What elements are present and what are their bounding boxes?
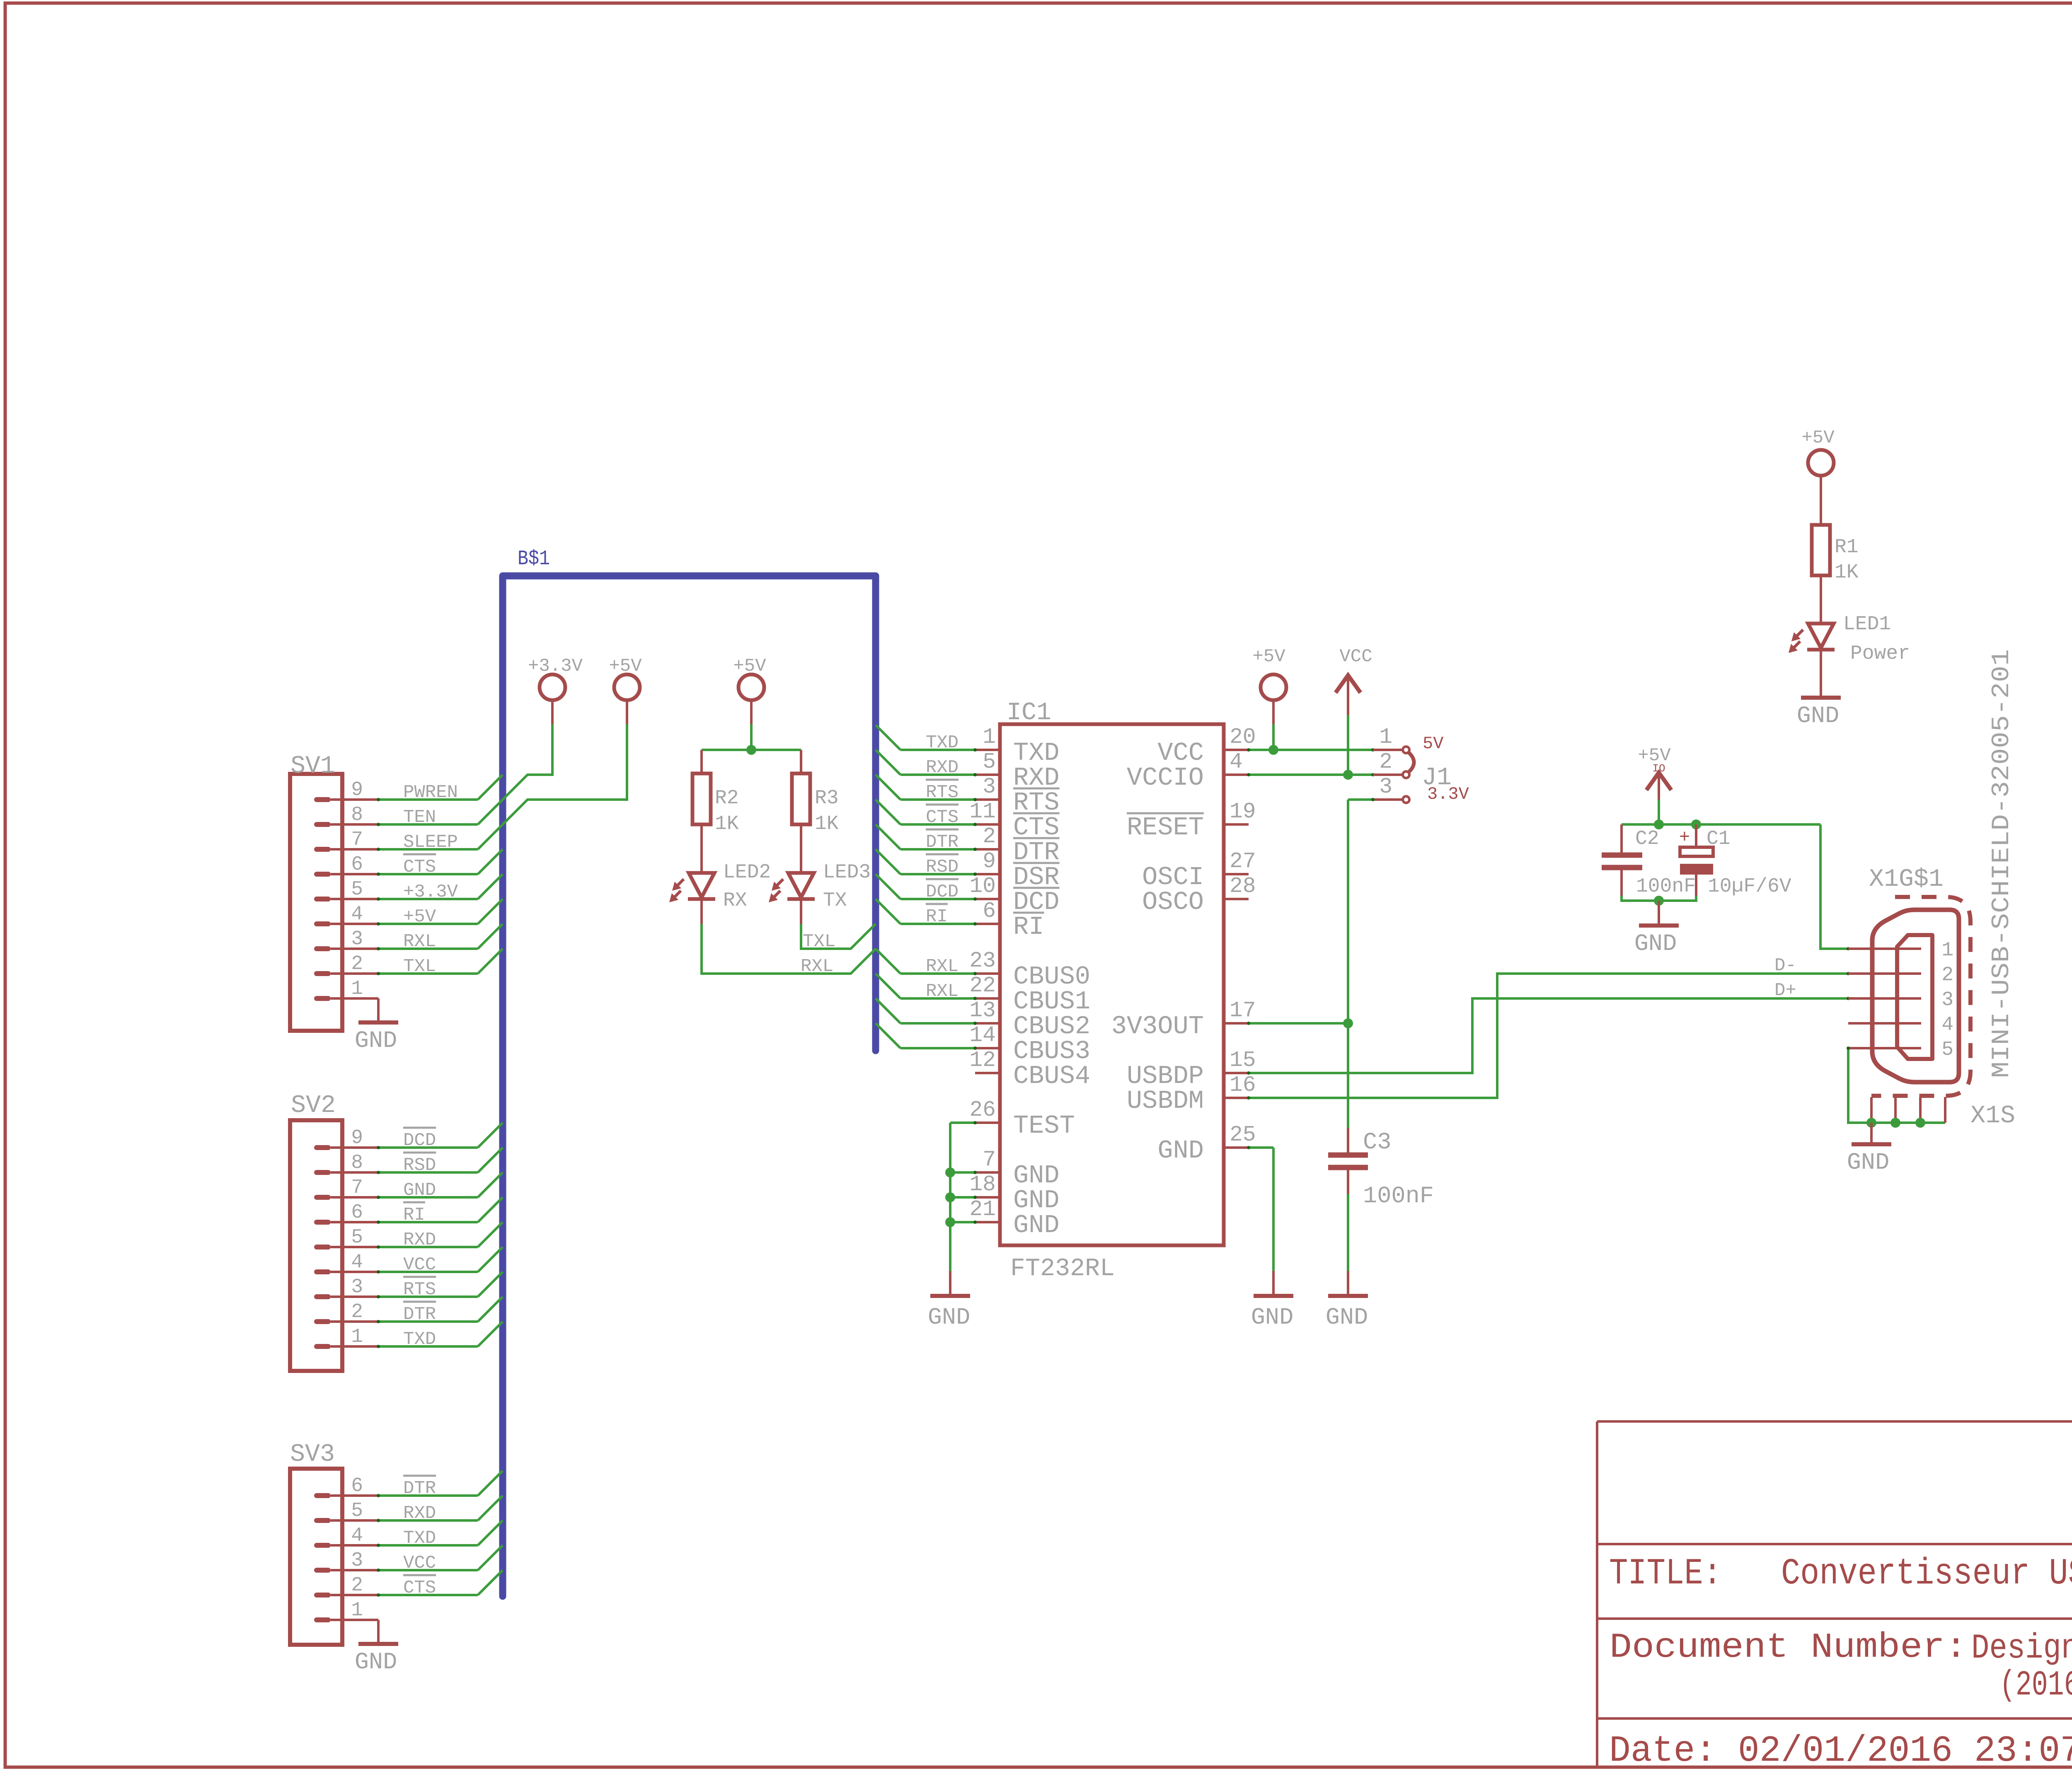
wire USBDM (D-) to USB pin 2 bbox=[1247, 972, 1850, 1100]
svg-text:2: 2 bbox=[983, 824, 996, 849]
IC1 pin 22 (CBUS1) left bbox=[969, 973, 1000, 998]
IC1 pin 26 (TEST) left bbox=[969, 1097, 1000, 1123]
junction at GND pin 7 bbox=[945, 1167, 955, 1177]
svg-text:3.3V: 3.3V bbox=[1427, 784, 1469, 804]
wire X1 pin 5 to shield ground row bbox=[1847, 1047, 1945, 1123]
IC1 pin 18 (GND) left bbox=[969, 1172, 1000, 1197]
svg-text:RSD: RSD bbox=[403, 1155, 436, 1176]
net label DTR bbox=[403, 1302, 436, 1325]
svg-text:2: 2 bbox=[351, 1301, 363, 1323]
ground symbol GND (SV1 pin 1) bbox=[355, 1022, 398, 1054]
svg-text:5: 5 bbox=[983, 749, 996, 774]
svg-text:GND: GND bbox=[1251, 1305, 1294, 1331]
svg-text:3V3OUT: 3V3OUT bbox=[1111, 1012, 1204, 1041]
wire TEN from SV1 pin 8 to bus bbox=[377, 800, 503, 826]
wire RXL from bus to IC1 pin 23 bbox=[876, 949, 977, 975]
svg-text:1: 1 bbox=[983, 725, 996, 749]
net label RSD bbox=[403, 1153, 436, 1176]
svg-text:23: 23 bbox=[969, 948, 996, 973]
net label RI bbox=[403, 1202, 425, 1225]
svg-text:3: 3 bbox=[983, 774, 996, 799]
SV1 pin 3 pin line bbox=[331, 947, 378, 950]
svg-text:+5V: +5V bbox=[733, 656, 766, 677]
svg-text:27: 27 bbox=[1230, 849, 1256, 874]
net label SLEEP bbox=[403, 832, 458, 853]
IC U1 FT232RL body bbox=[1000, 724, 1224, 1245]
wire DCD from SV2 pin 9 to bus bbox=[377, 1123, 503, 1149]
connector SV3 bbox=[290, 1469, 342, 1645]
IC1 pin name TEST bbox=[1013, 1111, 1075, 1141]
junction at GND pin 21 bbox=[945, 1217, 955, 1227]
wire VCC to VCCIO pin 4 and J1 pin 2 bbox=[1247, 675, 1375, 776]
svg-text:RXD: RXD bbox=[403, 1230, 436, 1250]
svg-text:1K: 1K bbox=[1835, 561, 1859, 584]
net label TXD bbox=[403, 1528, 436, 1549]
net label TXD bbox=[403, 1329, 436, 1350]
svg-text:TXD: TXD bbox=[403, 1528, 436, 1549]
svg-text:RXD: RXD bbox=[926, 757, 959, 778]
svg-text:2: 2 bbox=[351, 1574, 363, 1597]
svg-text:GND: GND bbox=[355, 1028, 397, 1054]
svg-text:Document Number:: Document Number: bbox=[1610, 1628, 1967, 1668]
X1 pin 4 bbox=[1848, 1014, 1953, 1036]
IC1 pin 17 (3V3OUT) right bbox=[1224, 998, 1256, 1023]
connector SV1 bbox=[290, 774, 342, 1031]
svg-text:+5V: +5V bbox=[1252, 646, 1285, 667]
IC1 pin 1 (TXD) left bbox=[975, 725, 1000, 750]
svg-text:MINI-USB-SCHIELD-32005-201: MINI-USB-SCHIELD-32005-201 bbox=[1988, 649, 2016, 1078]
svg-text:R3: R3 bbox=[815, 787, 839, 810]
svg-text:9: 9 bbox=[351, 1127, 363, 1149]
svg-text:7: 7 bbox=[351, 1177, 363, 1199]
wire +3.3V from SV1 pin 5 to bus bbox=[377, 874, 503, 901]
svg-text:GND: GND bbox=[928, 1305, 971, 1331]
IC1 pin name USBDP bbox=[1127, 1061, 1204, 1091]
SV2 pin 3 pin line bbox=[331, 1295, 378, 1298]
junction shield pin 1 bbox=[1866, 1118, 1876, 1128]
net label RXD bbox=[403, 1230, 436, 1250]
wire +5V to R2/R3 rail bbox=[702, 700, 801, 750]
svg-text:RXD: RXD bbox=[403, 1503, 436, 1524]
svg-text:12: 12 bbox=[969, 1048, 996, 1073]
IC1 pin name 3V3OUT bbox=[1111, 1012, 1204, 1041]
svg-text:TITLE:: TITLE: bbox=[1609, 1553, 1722, 1595]
svg-text:SV3: SV3 bbox=[290, 1440, 335, 1469]
wire +5V to R1 bbox=[1820, 476, 1822, 525]
svg-text:4: 4 bbox=[351, 1251, 363, 1274]
junction at GND pin 18 bbox=[945, 1192, 955, 1202]
net label CTS bbox=[403, 854, 436, 877]
wire PWREN from SV1 pin 9 to bus bbox=[377, 775, 503, 801]
wire 3V3OUT to J1 pin 3 and C3 bbox=[1247, 798, 1375, 1128]
SV3 pin 1 wire to ground bbox=[331, 1620, 378, 1644]
wire R2 to LED2 bbox=[700, 824, 703, 873]
wire TXD from bus to IC1 pin 1 bbox=[876, 725, 977, 752]
wire TXL from SV1 pin 2 to bus bbox=[377, 949, 503, 975]
ground symbol GND (IC1 left) bbox=[928, 1271, 971, 1331]
IC1 pin 2 (DTR) left bbox=[975, 824, 1000, 849]
IC1 pin name RESET bbox=[1127, 813, 1204, 842]
IC1 pin name CBUS3 bbox=[1013, 1037, 1090, 1066]
IC1 pin name OSCO bbox=[1142, 887, 1204, 917]
svg-text:10: 10 bbox=[969, 874, 996, 899]
svg-text:22: 22 bbox=[969, 973, 996, 998]
net label RXD bbox=[403, 1503, 436, 1524]
wire RI from bus to IC1 pin 6 bbox=[876, 899, 977, 926]
svg-text:RXL: RXL bbox=[403, 931, 436, 952]
svg-text:10µF/6V: 10µF/6V bbox=[1708, 875, 1791, 898]
SV1 pin 7 pin line bbox=[331, 848, 378, 851]
svg-text:USBDM: USBDM bbox=[1127, 1086, 1204, 1116]
svg-text:1: 1 bbox=[1941, 939, 1953, 962]
wire TXL from LED3 to bus bbox=[801, 924, 876, 949]
net label CTS bbox=[926, 805, 959, 828]
svg-text:RI: RI bbox=[926, 906, 948, 927]
junction VCC/+5V bbox=[1268, 745, 1278, 755]
wire TXD from SV2 pin 1 to bus bbox=[377, 1322, 503, 1348]
svg-text:5: 5 bbox=[1941, 1039, 1953, 1061]
wire +5V to bus bbox=[503, 700, 627, 824]
svg-text:6: 6 bbox=[983, 899, 996, 923]
wire RXD from bus to IC1 pin 5 bbox=[876, 750, 977, 776]
svg-text:LED3: LED3 bbox=[823, 861, 871, 884]
junction C2/C1 ground bbox=[1654, 896, 1664, 906]
svg-text:TEST: TEST bbox=[1013, 1111, 1075, 1141]
bus B$1 bbox=[503, 576, 876, 1596]
wire C2/C1 bottoms to ground bbox=[1622, 896, 1696, 901]
capacitor C3 bbox=[1328, 1128, 1368, 1194]
svg-text:4: 4 bbox=[351, 1525, 363, 1547]
SV3 pin 6 pin line bbox=[331, 1494, 378, 1497]
SV1 pin 1 wire to ground bbox=[331, 998, 378, 1022]
IC1 pin 7 (GND) left bbox=[975, 1147, 1000, 1172]
svg-text:TXD: TXD bbox=[403, 1329, 436, 1350]
svg-text:SV2: SV2 bbox=[291, 1092, 336, 1120]
IC1 pin name GND bbox=[1013, 1211, 1060, 1240]
svg-text:DTR: DTR bbox=[403, 1304, 436, 1325]
IC1 pin name CBUS2 bbox=[1013, 1012, 1090, 1041]
svg-text:16: 16 bbox=[1230, 1073, 1256, 1097]
svg-text:9: 9 bbox=[983, 849, 996, 874]
svg-text:3: 3 bbox=[351, 928, 363, 950]
IC1 pin 10 (DCD) left bbox=[969, 874, 1000, 899]
svg-text:GND: GND bbox=[1797, 703, 1840, 730]
wire CTS from bus to IC1 pin 11 bbox=[876, 800, 977, 826]
wire RXD from SV2 pin 5 to bus bbox=[377, 1222, 503, 1249]
supply symbol +5V IO arrow bbox=[1638, 745, 1671, 790]
SV3 pin 4 pin line bbox=[331, 1544, 378, 1547]
junction 3V3OUT bbox=[1343, 1018, 1353, 1028]
svg-text:D-: D- bbox=[1774, 955, 1796, 976]
LED LED1 bbox=[1789, 624, 1835, 698]
junction +5VIO at C2 bbox=[1654, 819, 1664, 829]
IC1 pin name DTR bbox=[1013, 838, 1060, 867]
SV2 pin 9 pin line bbox=[331, 1146, 378, 1149]
wire DCD from bus to IC1 pin 10 bbox=[876, 874, 977, 901]
svg-text:LED1: LED1 bbox=[1843, 613, 1891, 636]
wire R3 to LED3 bbox=[800, 824, 802, 873]
svg-text:15: 15 bbox=[1230, 1048, 1256, 1073]
wire DTR from SV3 pin 6 to bus bbox=[377, 1471, 503, 1497]
svg-text:25: 25 bbox=[1230, 1122, 1256, 1147]
wire R1 to LED1 bbox=[1820, 575, 1822, 624]
SV1 pin 5 pin line bbox=[331, 898, 378, 900]
IC1 pin 6 (RI) left bbox=[975, 899, 1000, 924]
IC1 pin 28 (OSCO) right bbox=[1224, 874, 1256, 899]
wire +5V from SV1 pin 4 to bus bbox=[377, 899, 503, 926]
IC1 pin name RTS bbox=[1013, 788, 1060, 817]
X1 pin 5 bbox=[1848, 1039, 1953, 1061]
svg-text:14: 14 bbox=[969, 1023, 996, 1048]
ground symbol GND (IC1 pin 25) bbox=[1251, 1271, 1294, 1331]
net label RTS bbox=[926, 780, 959, 803]
svg-text:1K: 1K bbox=[815, 813, 839, 835]
svg-text:VCC: VCC bbox=[403, 1553, 436, 1573]
wire RSD from SV2 pin 8 to bus bbox=[377, 1148, 503, 1174]
svg-text:TXL: TXL bbox=[403, 956, 436, 977]
net label VCC bbox=[403, 1254, 436, 1275]
IC1 pin name RXD bbox=[1013, 763, 1060, 793]
svg-text:TEN: TEN bbox=[403, 807, 436, 828]
IC1 pin name DSR bbox=[1013, 863, 1060, 892]
svg-text:3: 3 bbox=[351, 1549, 363, 1572]
IC1 pin 5 (RXD) left bbox=[975, 749, 1000, 775]
svg-text:11: 11 bbox=[969, 799, 996, 824]
svg-text:5: 5 bbox=[351, 1226, 363, 1249]
ground symbol GND (X1 shield) bbox=[1847, 1123, 1891, 1176]
connector X1 package dashed outline bbox=[1871, 897, 1970, 1096]
wire CTS from SV3 pin 2 to bus bbox=[377, 1570, 503, 1597]
svg-text:SV1: SV1 bbox=[290, 752, 335, 781]
connector X1 mini-USB shell outline bbox=[1872, 910, 1959, 1082]
svg-text:DTR: DTR bbox=[926, 832, 959, 853]
ground symbol GND (LED1) bbox=[1797, 698, 1841, 730]
capacitor C2 bbox=[1602, 824, 1642, 896]
IC1 pin name DCD bbox=[1013, 887, 1060, 917]
svg-text:RX: RX bbox=[723, 889, 747, 912]
svg-text:1: 1 bbox=[1379, 725, 1392, 749]
wire DTR from SV2 pin 2 to bus bbox=[377, 1297, 503, 1323]
svg-text:4: 4 bbox=[1941, 1014, 1953, 1036]
wire RTS from bus to IC1 pin 3 bbox=[876, 775, 977, 801]
IC1 pin 16 (USBDM) right bbox=[1224, 1073, 1256, 1098]
IC1 pin 3 (RTS) left bbox=[975, 774, 1000, 800]
ground symbol GND (C3) bbox=[1326, 1271, 1368, 1331]
wire +5V IO to C2/C1 rail and USB pin 1 bbox=[1622, 773, 1850, 950]
junction shield pin 3 bbox=[1915, 1118, 1925, 1128]
svg-text:GND: GND bbox=[355, 1649, 397, 1676]
net label +5V bbox=[403, 906, 436, 927]
svg-text:R2: R2 bbox=[715, 787, 739, 810]
svg-text:2: 2 bbox=[351, 953, 363, 975]
wire +5V to VCC pin 20 and J1 pin 1 bbox=[1247, 700, 1375, 752]
supply symbol +5V (VCC) bbox=[1252, 646, 1286, 700]
wire VCC from SV2 pin 4 to bus bbox=[377, 1247, 503, 1274]
svg-text:5V: 5V bbox=[1423, 734, 1443, 754]
svg-text:RI: RI bbox=[1013, 912, 1044, 942]
SV3 pin 3 pin line bbox=[331, 1569, 378, 1571]
svg-text:DCD: DCD bbox=[926, 882, 959, 902]
net label +3.3V bbox=[403, 882, 458, 902]
net label RXD bbox=[926, 757, 959, 778]
SV1 pin 2 pin line bbox=[331, 972, 378, 975]
junction on +5V rail bbox=[746, 745, 756, 755]
svg-text:100nF: 100nF bbox=[1636, 875, 1696, 898]
wire RXL from bus to IC1 pin 22 bbox=[876, 974, 977, 1000]
net label TXD bbox=[926, 732, 959, 753]
svg-text:GND: GND bbox=[1634, 931, 1677, 957]
svg-text:B$1: B$1 bbox=[518, 547, 550, 571]
net label RI bbox=[926, 904, 948, 927]
svg-text:RXL: RXL bbox=[801, 956, 833, 977]
svg-text:+5V: +5V bbox=[609, 656, 642, 677]
svg-text:18: 18 bbox=[969, 1172, 996, 1197]
wire USBDP (D+) to USB pin 3 bbox=[1247, 997, 1850, 1075]
svg-text:17: 17 bbox=[1230, 998, 1256, 1023]
net label DCD bbox=[403, 1128, 436, 1151]
wire RTS from SV2 pin 3 to bus bbox=[377, 1272, 503, 1298]
svg-text:GND: GND bbox=[1847, 1150, 1890, 1176]
wire RXL from SV1 pin 3 to bus bbox=[377, 924, 503, 950]
svg-text:7: 7 bbox=[983, 1147, 996, 1172]
svg-text:13: 13 bbox=[969, 998, 996, 1023]
svg-text:VCC: VCC bbox=[403, 1254, 436, 1275]
svg-text:TXL: TXL bbox=[803, 931, 835, 952]
svg-text:6: 6 bbox=[351, 853, 363, 876]
wire GND pin 25 to ground bbox=[1247, 1146, 1273, 1271]
svg-text:CTS: CTS bbox=[403, 857, 436, 877]
svg-text:7: 7 bbox=[351, 829, 363, 851]
wire GND from SV2 pin 7 to bus bbox=[377, 1172, 503, 1199]
SV2 pin 4 pin line bbox=[331, 1271, 378, 1273]
supply symbol +5V (left) bbox=[609, 656, 642, 700]
svg-text:DCD: DCD bbox=[403, 1130, 436, 1151]
svg-text:RXL: RXL bbox=[926, 956, 959, 977]
IC1 pin name GND bbox=[1013, 1161, 1060, 1190]
svg-text:DTR: DTR bbox=[403, 1478, 436, 1499]
svg-text:+3.3V: +3.3V bbox=[528, 656, 583, 677]
net label TEN bbox=[403, 807, 436, 828]
svg-text:GND: GND bbox=[403, 1180, 436, 1201]
svg-text:Design by Philippe LE GUEN: Design by Philippe LE GUEN bbox=[1971, 1629, 2072, 1668]
svg-text:RESET: RESET bbox=[1127, 813, 1204, 842]
IC1 pin 21 (GND) left bbox=[969, 1197, 1000, 1222]
X1 pin 1 bbox=[1848, 939, 1953, 962]
connector X1S shield pins bbox=[1871, 1097, 1945, 1123]
SV3 pin 5 pin line bbox=[331, 1519, 378, 1522]
svg-text:3: 3 bbox=[1941, 989, 1953, 1011]
net label RXL bbox=[403, 931, 436, 952]
svg-text:LED2: LED2 bbox=[723, 861, 771, 884]
svg-text:RTS: RTS bbox=[926, 782, 959, 803]
svg-text:+3.3V: +3.3V bbox=[403, 882, 458, 902]
junction VCCIO bbox=[1343, 770, 1353, 780]
svg-text:RI: RI bbox=[403, 1205, 425, 1225]
svg-text:19: 19 bbox=[1230, 799, 1256, 824]
svg-text:X1S: X1S bbox=[1970, 1102, 2015, 1130]
connector J1 bbox=[1373, 747, 1414, 803]
wire RI from SV2 pin 6 to bus bbox=[377, 1197, 503, 1224]
wire C3 to ground bbox=[1347, 1194, 1349, 1271]
IC1 pin 23 (CBUS0) left bbox=[969, 948, 1000, 974]
net label RXL bbox=[926, 956, 959, 977]
LED LED2 bbox=[669, 873, 715, 924]
SV1 pin 4 pin line bbox=[331, 923, 378, 925]
svg-text:TX: TX bbox=[823, 889, 847, 912]
svg-text:RTS: RTS bbox=[403, 1279, 436, 1300]
SV2 pin 6 pin line bbox=[331, 1221, 378, 1223]
svg-text:+5V: +5V bbox=[403, 906, 436, 927]
svg-text:8: 8 bbox=[351, 1152, 363, 1174]
SV2 pin 2 pin line bbox=[331, 1320, 378, 1323]
IC1 pin 19 (RESET) right bbox=[1224, 799, 1256, 824]
IC1 pin 15 (USBDP) right bbox=[1224, 1048, 1256, 1073]
svg-text:C1: C1 bbox=[1706, 828, 1731, 850]
net label DTR bbox=[926, 829, 959, 853]
junction shield pin 2 bbox=[1890, 1118, 1900, 1128]
svg-text:4: 4 bbox=[351, 903, 363, 926]
svg-text:5: 5 bbox=[351, 1500, 363, 1522]
IC1 pin 13 (CBUS2) left bbox=[969, 998, 1000, 1023]
IC1 pin 27 (OSCI) right bbox=[1224, 849, 1256, 874]
svg-text:GND: GND bbox=[1013, 1211, 1060, 1240]
wire CBUS3 from bus to IC1 pin 14 bbox=[876, 1023, 977, 1050]
SV1 pin 8 pin line bbox=[331, 823, 378, 826]
IC1 pin name RI bbox=[1013, 912, 1044, 942]
net label DCD bbox=[926, 879, 959, 902]
svg-text:CTS: CTS bbox=[403, 1578, 436, 1598]
supply symbol +3.3V bbox=[528, 656, 583, 700]
svg-text:RXL: RXL bbox=[926, 981, 959, 1002]
svg-text:IC1: IC1 bbox=[1007, 699, 1051, 727]
wire VCC from SV3 pin 3 to bus bbox=[377, 1545, 503, 1572]
svg-text:VCCIO: VCCIO bbox=[1127, 763, 1204, 793]
wire RXD from SV3 pin 5 to bus bbox=[377, 1496, 503, 1522]
IC1 pin name CBUS0 bbox=[1013, 962, 1090, 991]
IC1 pin 20 (VCC) right bbox=[1224, 725, 1256, 750]
IC1 pin name GND bbox=[1013, 1186, 1060, 1215]
IC1 pin 12 (CBUS4) left bbox=[969, 1048, 1000, 1073]
net label CTS bbox=[403, 1575, 436, 1598]
net label DTR bbox=[403, 1476, 436, 1499]
svg-text:4: 4 bbox=[1230, 749, 1243, 774]
svg-text:5: 5 bbox=[351, 878, 363, 901]
X1 pin 2 bbox=[1848, 964, 1953, 986]
svg-text:Convertisseur USB To TTL Serie: Convertisseur USB To TTL Serie for Ardui… bbox=[1781, 1553, 2072, 1595]
svg-text:1: 1 bbox=[351, 1599, 363, 1622]
wire CTS from SV1 pin 6 to bus bbox=[377, 849, 503, 876]
svg-text:1: 1 bbox=[351, 1326, 363, 1348]
svg-text:GND: GND bbox=[1157, 1136, 1204, 1165]
SV2 pin 1 pin line bbox=[331, 1345, 378, 1348]
svg-text:C2: C2 bbox=[1635, 828, 1659, 850]
svg-text:+: + bbox=[1679, 827, 1690, 848]
svg-text:OSCO: OSCO bbox=[1142, 887, 1204, 917]
svg-text:100nF: 100nF bbox=[1363, 1183, 1434, 1210]
wire TEST/GND rail to ground bbox=[950, 1121, 977, 1271]
connector X1 mini-USB cavity outline bbox=[1897, 935, 1932, 1059]
IC1 pin 14 (CBUS3) left bbox=[969, 1023, 1000, 1048]
svg-text:X1G$1: X1G$1 bbox=[1869, 865, 1944, 894]
svg-text:CBUS4: CBUS4 bbox=[1013, 1061, 1090, 1091]
wire TXD from SV3 pin 4 to bus bbox=[377, 1520, 503, 1547]
wire RSD from bus to IC1 pin 9 bbox=[876, 849, 977, 876]
connector SV2 bbox=[290, 1120, 342, 1371]
wire SLEEP from SV1 pin 7 to bus bbox=[377, 824, 503, 851]
IC1 pin name VCCIO bbox=[1127, 763, 1204, 793]
IC1 pin name CBUS1 bbox=[1013, 987, 1090, 1016]
svg-text:Date: 02/01/2016 23:07: Date: 02/01/2016 23:07 bbox=[1609, 1730, 2072, 1772]
